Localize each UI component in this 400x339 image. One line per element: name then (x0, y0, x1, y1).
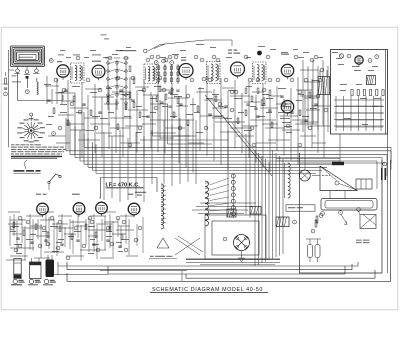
af callout b11 (110, 242, 114, 246)
terminal callout 3 (25, 90, 29, 94)
wire h16 (176, 105, 188, 107)
value b6 (234, 97, 242, 100)
label 1st af (36, 193, 47, 196)
wire hx24 (110, 127, 130, 129)
wire vertical v10 (108, 86, 110, 149)
bottom left wire (54, 266, 108, 275)
af wire vx7 (64, 227, 66, 247)
output transformer (276, 217, 289, 227)
callout b10 (282, 102, 286, 106)
callout 15 (244, 55, 248, 59)
wire h8 (112, 91, 130, 93)
top label 23 (226, 56, 232, 59)
callout b8 (234, 90, 238, 94)
connector bars (381, 168, 386, 180)
midright v5 (327, 66, 329, 132)
bus corner 7 (87, 138, 89, 167)
callout 42 (375, 55, 379, 59)
wire vertical v38 (304, 90, 306, 170)
loop inner text (19, 56, 33, 59)
wire h32 (230, 127, 252, 129)
tube V11 converter (128, 203, 140, 217)
midright h4 (300, 121, 318, 123)
speaker magnet (321, 199, 377, 211)
callout b21 (216, 58, 220, 62)
af resistor R42 (35, 224, 37, 230)
wire vertical v25 (213, 89, 215, 161)
tube V10 audio (96, 202, 108, 216)
resistor R4 (107, 96, 109, 102)
loop lead label (12, 81, 21, 84)
callout b20 (208, 78, 212, 82)
af wire 9 (44, 251, 64, 253)
af wire v1 (21, 219, 23, 243)
value label 26 (136, 131, 142, 134)
wire vertical v19 (171, 83, 173, 158)
cross vertical 8 (171, 124, 173, 186)
bus right drop 1 (390, 147, 392, 163)
callout 10 (168, 55, 172, 59)
af wire v7 (69, 219, 71, 249)
power switch (357, 208, 376, 229)
wire h14 (160, 89, 174, 91)
wire vertical v12 (122, 88, 124, 157)
power value 6 (344, 117, 351, 120)
label IF (181, 59, 186, 62)
bus corner 4 (79, 130, 81, 161)
af callout b8 (18, 244, 22, 248)
callout 16 (256, 78, 260, 82)
resistor R80 (316, 216, 318, 223)
bus corner 2 (69, 122, 71, 154)
top link line (160, 40, 232, 46)
callout b17 (174, 55, 178, 59)
callout b23 (248, 78, 252, 82)
value label 4 (90, 91, 97, 94)
IF transformer T2 can (144, 64, 157, 84)
wire vertical v0 (46, 76, 48, 104)
af wire hx0 (8, 211, 20, 213)
top label 19 (60, 49, 65, 52)
af value b2 (42, 230, 47, 233)
value b19 (48, 115, 54, 118)
wire hx4 (172, 135, 190, 137)
avc network (245, 88, 272, 111)
value b11 (310, 107, 317, 110)
wire vertical v33 (269, 97, 271, 172)
value b20 (60, 103, 67, 106)
power primary wire 3 (198, 213, 244, 215)
wire h23 (252, 91, 264, 93)
wire vertical v24 (206, 76, 208, 156)
IF transformer T2 primary (148, 67, 150, 82)
wire vertical v27 (227, 91, 229, 170)
left callout (4, 92, 8, 96)
value b27 (282, 121, 291, 124)
af wire 3 (55, 227, 73, 229)
top label 7 (126, 46, 131, 49)
capacitor C12 (256, 116, 259, 117)
speaker voice coil circle (299, 170, 310, 181)
af wire 1 (22, 227, 42, 229)
power value 0 (336, 57, 342, 60)
af wire v2 (29, 214, 31, 250)
power primary wire 2 (192, 209, 248, 211)
top label 15 (281, 51, 288, 54)
af resistor R46 (85, 224, 87, 230)
cross vertical 7 (163, 120, 165, 184)
callout 20 (304, 78, 308, 82)
bus right drop 2 (390, 151, 392, 170)
af wire vx1 (16, 221, 18, 253)
loop terminal strip (14, 67, 40, 79)
value label 29 (286, 131, 292, 134)
wire hx21 (212, 117, 228, 119)
left rail link (3, 70, 15, 84)
af value b8 (16, 252, 22, 255)
capacitor C1 (47, 100, 50, 101)
wire hx2 (108, 135, 124, 137)
wire h31 (215, 121, 245, 123)
af wire hx13 (118, 225, 130, 227)
af wire 11 (10, 255, 28, 257)
IF transformer T1 can (71, 63, 85, 83)
callout 22 (320, 68, 324, 72)
band switch wafers (105, 58, 129, 110)
wire vertical v37 (297, 77, 299, 165)
value b2 (174, 95, 182, 98)
callout 14 (224, 78, 228, 82)
af resistor R45 (71, 234, 73, 240)
af wire hx4 (74, 211, 86, 213)
wire h3 (70, 107, 88, 109)
panel text line (186, 259, 280, 260)
osc padder triangle (157, 238, 169, 248)
top label 5 (103, 56, 108, 59)
value label 34 (340, 83, 347, 86)
bus wire 7 (88, 166, 327, 168)
af callout b1 (26, 220, 30, 224)
callout b19 (200, 58, 204, 62)
af wire hx19 (6, 259, 26, 261)
capacitor C13 (280, 96, 283, 97)
wire vertical v18 (164, 94, 166, 154)
af capacitor C40 (16, 238, 19, 239)
value label 10 (198, 87, 204, 90)
band switch contacts (231, 174, 235, 216)
speaker label text (322, 174, 330, 177)
af resistor R41 (23, 230, 25, 236)
af wire vx6 (56, 222, 58, 256)
speaker label plate (332, 162, 344, 165)
resistor R7 (156, 96, 158, 102)
af value 9 (116, 241, 122, 244)
resistor R70 (315, 220, 317, 227)
wire hx7 (268, 139, 290, 141)
af wire hx17 (88, 235, 98, 237)
af wire hx1 (26, 215, 42, 217)
wire hx9 (56, 142, 70, 144)
midright h3 (306, 109, 320, 111)
power box wiring (334, 100, 384, 126)
bus wire 1 (84, 146, 391, 148)
electrolytic can C90B (30, 258, 42, 279)
top label 0 (58, 54, 64, 57)
antenna coil L1 (37, 82, 38, 95)
bus wire 2 (66, 150, 391, 152)
top label 11 (196, 43, 204, 46)
bus corner 5 (83, 112, 85, 147)
bus wire 6 (84, 163, 332, 165)
af wire v6 (61, 214, 63, 242)
wire vertical v32 (262, 84, 264, 167)
value label 21 (224, 117, 232, 120)
af value 7 (56, 241, 62, 244)
wire vertical v22 (192, 98, 194, 172)
IF transformer T2 secondary (152, 67, 154, 82)
title underline (150, 291, 268, 293)
af callout 9 (38, 244, 42, 248)
value label 35 (356, 83, 362, 86)
interstage transformer (250, 207, 261, 215)
top label 24 (246, 56, 251, 59)
top left mark a (101, 34, 107, 37)
top label 18 (332, 51, 338, 54)
wire h12 (143, 94, 159, 96)
af wire v10 (93, 214, 95, 252)
callout 4 (108, 56, 112, 60)
callout 70 (321, 212, 325, 216)
af value 0 (12, 225, 19, 228)
af capacitor C42 (44, 240, 47, 241)
top label 13 (258, 45, 265, 48)
wire h10 (128, 109, 148, 111)
return wire 5 (67, 160, 391, 281)
output transformer label box (286, 205, 315, 211)
wire loop to coil (28, 78, 37, 88)
af wire hx12 (98, 223, 112, 225)
value b25 (136, 105, 142, 108)
value label 8 (154, 85, 161, 88)
af callout 2 (88, 216, 92, 220)
wire ant section (18, 73, 64, 101)
wire vertical v29 (241, 93, 243, 153)
resistor R14 (309, 92, 311, 98)
callout 25 (94, 126, 98, 130)
wire hx3 (140, 139, 160, 141)
top label 25 (298, 56, 304, 59)
cross vertical 12 (227, 130, 229, 208)
gnd lead (239, 251, 245, 262)
power value 1 (352, 65, 359, 68)
callout 13 (212, 55, 216, 59)
top left mark b (104, 38, 109, 41)
af value b9 (52, 250, 59, 253)
power drop wire 6 (275, 153, 277, 257)
af resistor R49 (121, 234, 123, 240)
bus right drop 4 (381, 158, 383, 183)
value b17 (258, 115, 265, 118)
af value 6 (14, 243, 22, 246)
callout 40 (347, 54, 351, 58)
af wire vx3 (32, 219, 34, 251)
af capacitor C41 (30, 242, 33, 243)
range switch (48, 174, 61, 190)
capacitor C11 (224, 106, 227, 107)
stack callout 2 (162, 59, 166, 63)
af capacitor C44 (76, 240, 79, 241)
capacitor C4 (98, 112, 101, 113)
IF transformer T1 secondary (79, 66, 81, 81)
af callout 5 (56, 246, 60, 250)
af wire vx17 (142, 217, 144, 253)
wire h11 (135, 86, 149, 88)
wire h21 (230, 95, 250, 97)
callout b4 (154, 106, 158, 110)
value label 2 (58, 91, 64, 94)
capacitor C2 (64, 90, 67, 91)
value label 32 (354, 69, 361, 72)
callout 81 (319, 214, 323, 218)
top label 12 (210, 46, 216, 49)
af wire vx12 (104, 216, 106, 250)
callout b9 (262, 88, 266, 92)
bus corner 9 (95, 144, 97, 173)
bus corner 1 (65, 118, 67, 151)
value b0 (150, 97, 157, 100)
midright h1 (304, 81, 320, 83)
value label 18 (100, 117, 108, 120)
wire vertical v20 (178, 96, 180, 163)
cross vertical 4 (135, 132, 137, 198)
value b24 (124, 115, 131, 118)
callout 18 (276, 78, 280, 82)
value label 19 (142, 115, 148, 118)
af value 3 (68, 235, 74, 238)
top label 17 (303, 51, 309, 54)
af callout b9 (46, 242, 50, 246)
top label 26 (318, 56, 323, 59)
wire h22 (244, 101, 260, 103)
wire h30 (200, 115, 224, 117)
af wire 5 (88, 229, 108, 231)
callout 29 (230, 108, 234, 112)
cross vertical 14 (249, 130, 251, 218)
part id 3 (44, 279, 56, 283)
wire vertical v26 (220, 78, 222, 165)
af value b3 (58, 238, 64, 241)
af wire vx15 (128, 219, 130, 255)
wire vertical v11 (115, 99, 117, 153)
tube V6 output (281, 101, 293, 116)
wire hx19 (242, 125, 258, 127)
af value b1 (26, 238, 33, 241)
value b21 (76, 111, 82, 114)
tube V9 driver (73, 203, 85, 217)
value label 12 (228, 89, 236, 92)
tube V1 RF amp (57, 65, 69, 80)
midright v4 (322, 60, 324, 126)
value b23 (108, 111, 114, 114)
af wire hx14 (12, 233, 22, 235)
label third-osc (135, 192, 146, 196)
af callout 3 (116, 216, 120, 220)
af wire 6 (104, 221, 118, 223)
wire h33 (150, 119, 176, 121)
af wire hx9 (30, 225, 42, 227)
osc panel underline (149, 258, 177, 260)
wire vertical v36 (290, 88, 292, 160)
value label 31 (338, 63, 344, 66)
tube V4 2nd det (231, 62, 245, 79)
af wire hx10 (52, 223, 68, 225)
bus wire 8 (93, 169, 323, 171)
power primary wire 0 (200, 202, 256, 204)
bottom right box (300, 153, 383, 273)
callout b12 (316, 94, 320, 98)
callout b3 (142, 88, 146, 92)
af wire hx3 (58, 215, 72, 217)
label osc tube (128, 193, 133, 196)
AC line plug (306, 239, 321, 262)
wheel top lead (30, 113, 33, 121)
capacitor C8 (168, 92, 171, 93)
socket callout (223, 237, 227, 241)
wire h36 (125, 125, 143, 127)
callout 6 (124, 56, 128, 60)
callout 17 (266, 55, 270, 59)
af callout b4 (74, 226, 78, 230)
wire hx20 (310, 125, 330, 127)
af wire 2 (40, 219, 54, 221)
part id 2 text (28, 284, 38, 285)
af resistor R40 (13, 222, 15, 228)
value b18 (278, 111, 286, 114)
audio transformer (227, 209, 236, 217)
callout b1 (70, 102, 74, 106)
value label 11 (212, 93, 219, 96)
top label 1 (66, 56, 71, 59)
wire vertical v1 (51, 89, 53, 104)
power value 4 (360, 97, 367, 100)
IF frequency label (106, 182, 144, 188)
wire h5 (85, 88, 101, 90)
resistor R18 (237, 118, 239, 124)
af wire v0 (13, 214, 15, 236)
label osc section (150, 255, 173, 258)
wire hx28 (262, 123, 278, 125)
value label 16 (298, 93, 304, 96)
switch callout (339, 211, 343, 215)
wire vertical v14 (136, 90, 138, 153)
af wire 0 (10, 219, 26, 221)
callout 28 (204, 126, 208, 130)
speaker field coil (288, 163, 290, 198)
value b15 (214, 115, 222, 118)
value b22 (92, 115, 100, 118)
pilot lamp (339, 54, 343, 58)
af resistor R43 (47, 232, 49, 238)
callout 33 (128, 143, 132, 147)
power box vertical wiring (336, 96, 381, 131)
IF transformer T4 can (253, 62, 267, 84)
callout 1 (54, 78, 58, 82)
resistor R17 (187, 120, 189, 126)
bus wire 9 (96, 172, 316, 174)
label RF (57, 60, 62, 63)
wire hx27 (228, 121, 240, 123)
af wire hx20 (34, 257, 50, 259)
